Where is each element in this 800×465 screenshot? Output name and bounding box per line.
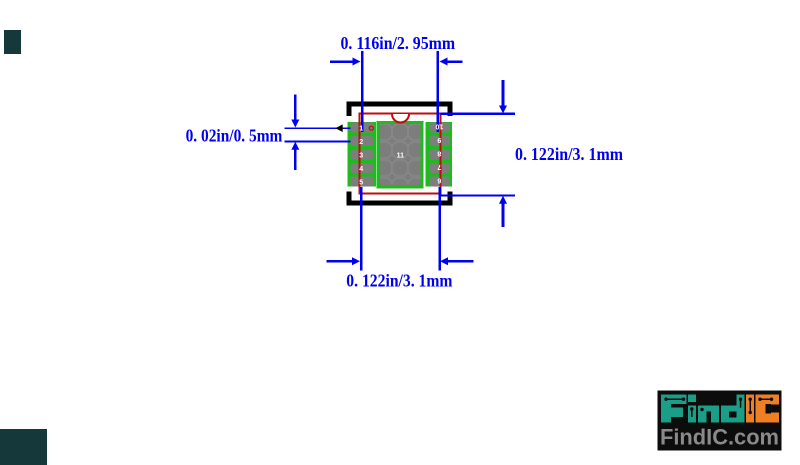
dimension left: extension lines to pads <box>285 127 351 129</box>
pad 1 <box>351 123 373 133</box>
svg-text:2: 2 <box>359 139 363 146</box>
pad 5 <box>351 177 373 187</box>
pad 3 <box>351 150 373 160</box>
pin 1 marker <box>369 126 373 130</box>
logo letter C <box>756 395 766 423</box>
svg-text:3: 3 <box>359 152 363 159</box>
pad 9 <box>429 136 450 146</box>
logo letter F <box>661 395 671 423</box>
dimension right: extension lines <box>441 113 516 115</box>
pad 10 <box>429 123 450 133</box>
logo letter i <box>688 395 696 403</box>
pad 7 <box>429 163 450 173</box>
logo letter n <box>698 406 706 423</box>
thermal pad 11 <box>376 121 424 194</box>
courtyard bracket bottom <box>347 192 453 206</box>
black arrowhead at pad 1 <box>335 124 342 132</box>
svg-text:0. 122in/3. 1mm: 0. 122in/3. 1mm <box>346 271 452 291</box>
svg-text:11: 11 <box>397 152 405 159</box>
svg-text:9: 9 <box>437 136 441 143</box>
logo letter I <box>746 395 754 423</box>
pad 6 <box>429 177 450 187</box>
svg-text:FindIC.com: FindIC.com <box>660 425 779 450</box>
svg-text:0. 116in/2. 95mm: 0. 116in/2. 95mm <box>341 33 456 53</box>
pad 8 <box>429 150 450 160</box>
dark header fragment top-left <box>4 30 21 54</box>
pad column left (pads 1-5) <box>348 122 376 187</box>
svg-text:7: 7 <box>437 163 441 170</box>
pad 2 <box>351 136 373 146</box>
svg-text:4: 4 <box>359 166 363 173</box>
svg-text:6: 6 <box>437 176 441 183</box>
svg-text:8: 8 <box>437 149 441 156</box>
dimension top arrow right <box>440 58 463 66</box>
logo letter d <box>721 406 729 423</box>
dimension extension line right vertical <box>436 51 439 132</box>
svg-text:0. 02in/0. 5mm: 0. 02in/0. 5mm <box>186 125 283 145</box>
pad column right (pads 10-6) <box>426 122 452 187</box>
pad 4 <box>351 163 373 173</box>
svg-text:1: 1 <box>359 125 363 132</box>
dark footer fragment bottom-left <box>0 429 47 465</box>
logo circuit traces <box>664 398 667 401</box>
dimension bottom arrow right <box>440 257 474 265</box>
dimension extension line left vertical <box>361 51 364 132</box>
svg-text:10: 10 <box>435 122 443 129</box>
pin 1 notch <box>392 114 409 123</box>
dimension left vertical with arrows <box>291 95 299 171</box>
FindIC logo <box>658 391 782 451</box>
svg-text:5: 5 <box>359 179 363 186</box>
courtyard bracket top <box>347 102 453 117</box>
right copper strip <box>426 122 452 187</box>
svg-text:0. 122in/3. 1mm: 0. 122in/3. 1mm <box>515 144 623 164</box>
dimension right vertical with arrows <box>499 80 507 227</box>
package outline <box>360 114 441 194</box>
dimension bottom arrow left <box>326 257 360 265</box>
dimension top arrow left <box>330 58 361 66</box>
left copper strip <box>348 122 376 187</box>
